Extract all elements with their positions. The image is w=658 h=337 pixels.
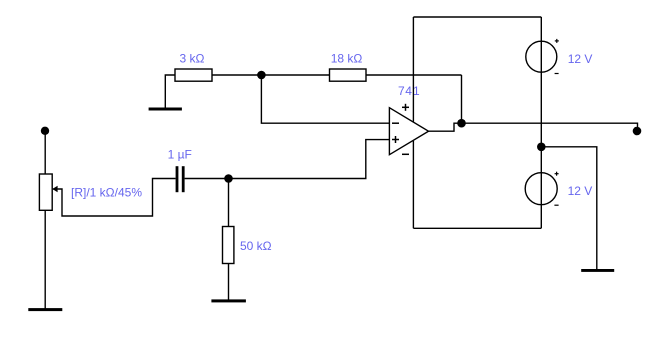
svg-text:3 kΩ: 3 kΩ (180, 52, 205, 66)
node IN terminal dot (41, 127, 49, 135)
op-amp noninverting input plus sign (392, 139, 399, 141)
op-amp V+ plus sign (402, 106, 409, 108)
node F output-feedback junction dot (457, 119, 466, 128)
wire V+ pin up (412, 17, 414, 122)
wire 18k to feedback corner (366, 74, 462, 76)
wire potentiometer bottom to ground (44, 210, 46, 308)
V2 plus sign (555, 173, 559, 175)
node OUT terminal dot (633, 127, 642, 136)
wire output run to terminal (462, 123, 638, 128)
wire V- pin down (412, 141, 414, 229)
op-amp U1 741 triangle (389, 108, 428, 155)
V1 minus sign (555, 73, 559, 75)
ground (under potentiometer) (28, 308, 62, 311)
node midpoint junction dot (537, 143, 546, 152)
wire node B to 18k resistor (261, 74, 329, 76)
wire input terminal to potentiometer top (44, 131, 46, 174)
ground (under 50k resistor) (211, 299, 246, 302)
wire node A to op-amp noninverting input (229, 140, 390, 179)
svg-text:1 µF: 1 µF (168, 148, 192, 162)
source V1 12 V circle (526, 41, 557, 72)
svg-text:741: 741 (398, 84, 420, 98)
resistor R2 18 kΩ body (330, 69, 367, 81)
wire wiper to capacitor (58, 179, 176, 217)
potentiometer R body (39, 174, 52, 210)
op-amp V- minus sign (402, 153, 409, 155)
V1 plus sign (555, 40, 559, 42)
resistor R3 50 kΩ body (223, 227, 234, 264)
resistor R1 3 kΩ body (175, 69, 212, 81)
ground (right, supply midpoint) (581, 269, 614, 272)
V2 minus sign (554, 204, 558, 206)
op-amp inverting input minus sign (392, 122, 399, 124)
wire bottom rail (413, 227, 541, 229)
wire 50k bottom to ground (228, 264, 230, 300)
wire midpoint to right ground (541, 147, 597, 270)
wire capacitor to node A (185, 178, 229, 180)
wire top rail (413, 16, 541, 18)
wire node A down to 50k resistor (228, 179, 230, 227)
source V2 12 V circle (525, 173, 557, 205)
node A junction dot (224, 174, 233, 183)
wire node B down to inverting input (261, 75, 389, 123)
wire 3k to node B (212, 74, 261, 76)
svg-text:12 V: 12 V (568, 52, 593, 66)
svg-text:[R]/1 kΩ/45%: [R]/1 kΩ/45% (71, 186, 142, 200)
wire feedback down to output node (461, 75, 463, 123)
node B junction dot (257, 71, 266, 80)
ground (left of 3k resistor) (149, 108, 182, 111)
svg-text:50 kΩ: 50 kΩ (240, 239, 272, 253)
wire op-amp output (429, 123, 462, 131)
svg-text:12 V: 12 V (568, 184, 593, 198)
capacitor C1 1 µF plates (176, 166, 179, 192)
potentiometer R wiper arrow (53, 188, 58, 190)
svg-text:18 kΩ: 18 kΩ (331, 52, 363, 66)
wire right rail through sources (540, 17, 542, 228)
wire ground lead to 3k resistor (165, 75, 175, 108)
